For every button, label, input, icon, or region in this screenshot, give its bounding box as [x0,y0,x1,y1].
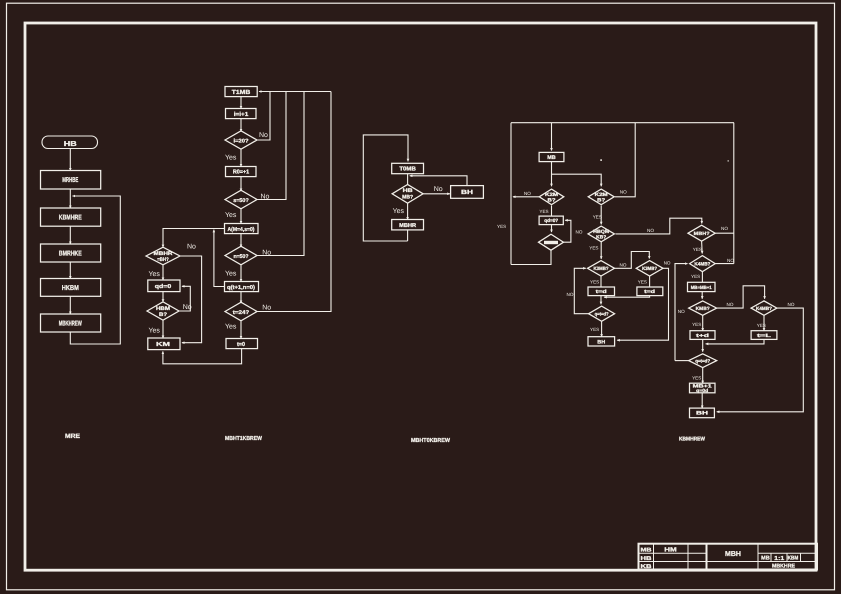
svg-text:HM: HM [664,547,677,554]
svg-text:Yes: Yes [225,324,237,331]
svg-text:No: No [259,132,268,139]
svg-text:MBKHREW: MBKHREW [59,320,82,327]
svg-text:No: No [262,250,271,257]
svg-text:YES: YES [757,323,766,328]
svg-text:K4MB?: K4MB? [694,261,710,267]
svg-text:YES: YES [539,209,548,214]
svg-text:T1MB: T1MB [232,89,251,96]
svg-text:HBQM: HBQM [593,229,609,235]
svg-text:1:1: 1:1 [774,556,785,562]
svg-text:qd=0: qd=0 [155,283,172,290]
svg-text:HB: HB [403,188,413,194]
svg-text:YES: YES [638,280,647,285]
svg-text:No: No [187,244,196,251]
svg-text:MB=MB+1: MB=MB+1 [691,285,712,290]
svg-text:NO: NO [727,302,734,307]
svg-text:KMB?: KMB? [696,306,710,312]
svg-text:Yes: Yes [149,328,161,335]
svg-text:T0MB: T0MB [399,166,416,173]
svg-text:No: No [183,304,192,311]
svg-text:KB: KB [641,564,652,570]
svg-text:NO: NO [721,226,728,231]
svg-text:A(M=4,s=0): A(M=4,s=0) [228,226,255,233]
svg-text:MRHBE: MRHBE [62,177,78,184]
svg-text:q(t+1,n=0): q(t+1,n=0) [227,284,255,291]
svg-text:=BH?: =BH? [157,257,169,263]
svg-text:q=t=d?: q=t=d? [695,359,710,365]
svg-text:Yes: Yes [225,270,237,277]
svg-text:Yes: Yes [393,208,405,215]
svg-text:NO: NO [788,302,795,307]
svg-text:K2M: K2M [595,192,608,198]
svg-text:KB?: KB? [596,235,606,241]
svg-text:t=L: t=L [757,333,771,339]
svg-text:s=50?: s=50? [233,198,249,204]
svg-text:YES: YES [593,215,602,220]
svg-text:BH: BH [696,411,709,417]
svg-text:q=0d: q=0d [696,388,708,393]
svg-text:No: No [434,186,443,193]
svg-text:R0=+1: R0=+1 [233,168,250,175]
svg-text:Yes: Yes [149,271,161,278]
svg-text:NO: NO [727,258,734,263]
svg-text:MBKHRE: MBKHRE [772,563,795,569]
svg-text:qd=0?: qd=0? [544,218,558,224]
svg-text:MB: MB [761,555,770,561]
svg-text:NO: NO [524,191,531,196]
svg-text:MRE: MRE [65,433,81,440]
svg-text:B?: B? [597,198,605,204]
svg-text:MB?: MB? [402,195,413,201]
svg-text:YES: YES [693,247,702,252]
svg-text:NO: NO [678,309,685,314]
svg-text:i=20?: i=20? [234,138,249,144]
svg-text:BH: BH [461,189,473,196]
svg-text:NO: NO [620,190,627,195]
svg-text:MBH: MBH [725,551,741,558]
svg-text:B?: B? [159,312,167,318]
svg-text:HB: HB [641,556,652,562]
svg-text:KBM: KBM [788,555,799,561]
svg-text:YES: YES [589,245,598,250]
svg-text:t=d: t=d [644,289,655,295]
svg-text:t=0: t=0 [237,341,245,348]
svg-text:t=d: t=d [596,289,607,295]
svg-text:No: No [261,194,270,201]
svg-text:Yes: Yes [225,212,237,219]
svg-text:t=24?: t=24? [233,310,250,316]
svg-text:YES: YES [590,280,599,285]
svg-text:NO: NO [647,228,654,233]
svg-text:HB: HB [64,141,77,148]
svg-text:NO: NO [664,261,671,266]
svg-text:YES: YES [590,327,599,332]
svg-text:K4MB?: K4MB? [756,306,772,312]
svg-text:NO: NO [620,262,627,267]
svg-text:K3MB?: K3MB? [642,266,657,272]
svg-text:NO: NO [567,292,574,297]
svg-text:MBHR: MBHR [399,223,416,229]
svg-text:K2M: K2M [545,192,558,198]
svg-text:YES: YES [692,376,701,381]
svg-text:t+d: t+d [696,333,709,339]
svg-text:HKBM: HKBM [62,285,79,292]
svg-text:K3MB?: K3MB? [594,266,609,272]
svg-text:No: No [262,304,271,311]
svg-text:MB: MB [547,155,556,161]
svg-text:YES: YES [691,274,700,279]
svg-text:KBMHRE: KBMHRE [59,215,82,222]
svg-text:BH: BH [597,339,605,345]
svg-text:KM: KM [156,342,170,348]
svg-text:YES: YES [692,322,701,327]
svg-text:KBMHREW: KBMHREW [679,437,706,443]
svg-text:n=50?: n=50? [234,254,249,260]
svg-text:BMRHKE: BMRHKE [59,250,82,257]
svg-text:NO: NO [576,230,583,235]
svg-text:MBHT0KBREW: MBHT0KBREW [411,437,450,444]
svg-text:Yes: Yes [225,155,237,162]
svg-text:i=i+1: i=i+1 [234,111,249,118]
svg-text:q=t=d?: q=t=d? [595,312,609,318]
svg-text:MBH?: MBH? [694,231,710,237]
svg-text:B?: B? [548,198,556,204]
svg-text:YES: YES [497,224,506,229]
svg-text:MB: MB [641,548,652,554]
svg-text:MBHT1KBREW: MBHT1KBREW [225,436,262,442]
